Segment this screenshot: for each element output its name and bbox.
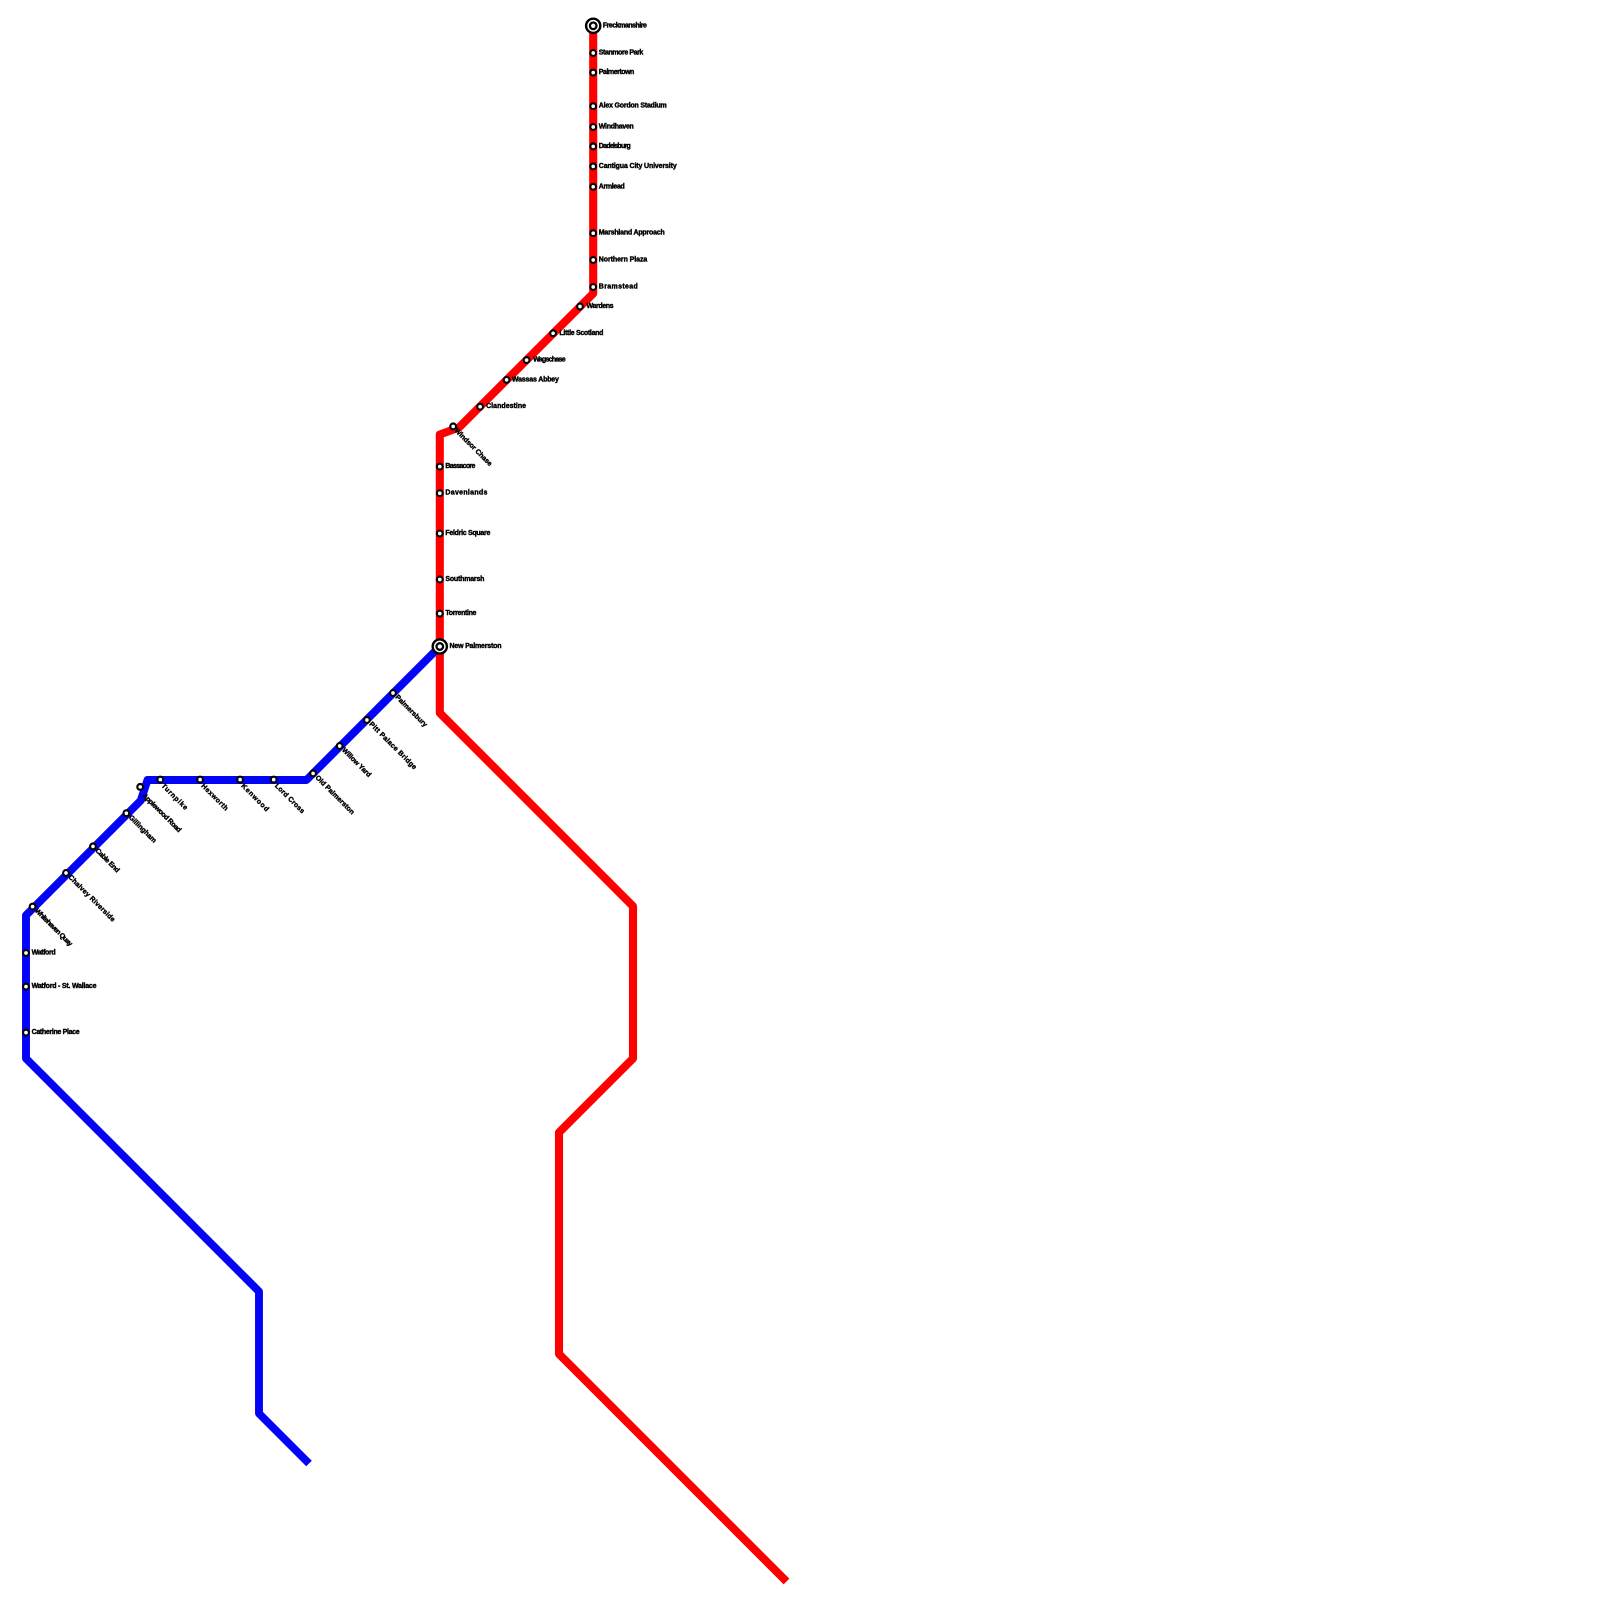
svg-text:Davenlands: Davenlands	[445, 490, 487, 497]
station B15 Watford - St. Wallace	[23, 983, 97, 990]
svg-text:Dadelsburg: Dadelsburg	[599, 143, 631, 150]
svg-text:New Palmerston: New Palmerston	[450, 643, 502, 650]
svg-text:Clandestine: Clandestine	[486, 403, 526, 410]
svg-text:Catherine Place: Catherine Place	[32, 1029, 80, 1036]
svg-text:Watford - St. Wallace: Watford - St. Wallace	[32, 983, 97, 990]
svg-text:Wassas Abbey: Wassas Abbey	[512, 376, 559, 383]
svg-text:Armlead: Armlead	[599, 183, 625, 190]
station B14 Watford	[23, 950, 55, 957]
svg-text:Cantigua City University: Cantigua City University	[599, 163, 677, 170]
svg-text:Palmertown: Palmertown	[599, 69, 634, 76]
station B11 Cable End	[90, 844, 120, 875]
svg-text:Stanmore Park: Stanmore Park	[599, 50, 644, 57]
blue line (Line 2)	[26, 647, 440, 1464]
svg-text:Alex Gordon Stadium: Alex Gordon Stadium	[599, 103, 667, 110]
station B16 Catherine Place	[23, 1029, 80, 1036]
station R5 Windhaven	[590, 124, 633, 131]
svg-text:Wardens: Wardens	[587, 303, 614, 310]
station B13 Whitehaven Quay	[30, 904, 74, 948]
station R1 Freckmanshire	[586, 19, 647, 33]
svg-text:Watford: Watford	[32, 950, 56, 957]
station R2 Stanmore Park	[590, 50, 643, 57]
station R14 Wagschase	[524, 357, 566, 364]
station B3 Willow Yard	[337, 743, 372, 779]
station B10 Gillingham	[124, 810, 158, 844]
svg-text:Freckmanshire: Freckmanshire	[603, 22, 647, 29]
station R3 Palmertown	[590, 69, 634, 76]
svg-text:Little Scotland: Little Scotland	[559, 330, 603, 337]
station R17 Windsor Chase	[450, 424, 493, 468]
svg-text:Windhaven: Windhaven	[599, 124, 634, 131]
station R10 Northern Plaza	[590, 257, 647, 264]
station B1 Palmersbury	[390, 690, 428, 729]
station R20 Feldric Square	[437, 530, 491, 537]
svg-text:Wagschase: Wagschase	[533, 357, 566, 364]
station B12 Chalvey Riverside	[63, 870, 116, 924]
station B5 Lord Cross	[271, 777, 306, 816]
station B4 Old Palmerston	[310, 771, 355, 817]
svg-text:Southmarsh: Southmarsh	[445, 576, 484, 583]
station R8 Armlead	[590, 183, 624, 190]
station B6 Kenwood	[237, 777, 270, 814]
station R19 Davenlands	[437, 490, 488, 497]
station B7 Hexworth	[197, 777, 229, 813]
svg-text:Marshland Approach: Marshland Approach	[599, 230, 665, 237]
station B9 Applewood Road	[137, 784, 182, 834]
station B8 Turnpike	[157, 777, 189, 813]
station R11 Bramstead	[590, 284, 638, 291]
station B2 Pitt Palace Bridge	[364, 717, 418, 771]
station R15 Wassas Abbey	[504, 376, 559, 383]
station R16 Clandestine	[477, 403, 526, 410]
svg-text:Feldric Square: Feldric Square	[445, 530, 490, 537]
station R21 Southmarsh	[437, 576, 484, 583]
station R7 Cantigua City University	[590, 163, 677, 170]
station R9 Marshland Approach	[590, 230, 664, 237]
svg-text:Torrentine: Torrentine	[445, 610, 476, 617]
red line (Line 1)	[440, 26, 787, 1582]
station R22 Torrentine	[437, 610, 477, 617]
station R6 Dadelsburg	[590, 143, 630, 150]
station R13 Little Scotland	[550, 330, 603, 337]
station R18 Bassacore	[437, 463, 476, 470]
svg-text:Northern Plaza: Northern Plaza	[599, 257, 648, 264]
svg-text:Bassacore: Bassacore	[445, 463, 475, 470]
station R4 Alex Gordon Stadium	[590, 103, 666, 110]
station R23 New Palmerston	[433, 639, 502, 653]
station R12 Wardens	[577, 303, 614, 310]
svg-text:Bramstead: Bramstead	[599, 284, 638, 291]
